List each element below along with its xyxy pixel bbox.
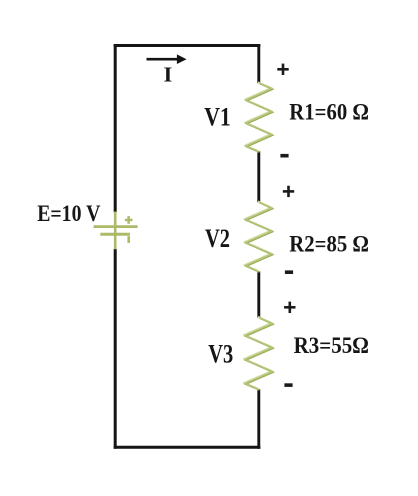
current arrow: [147, 54, 187, 64]
minus sign R2: [285, 270, 293, 274]
wire left lower: [114, 249, 117, 449]
wire left upper: [114, 44, 117, 212]
battery short plate: [100, 233, 130, 236]
wire right segment R1 to R2: [257, 151, 260, 202]
svg-text:R3=55Ω: R3=55Ω: [294, 333, 369, 359]
plus sign R2: [283, 186, 294, 197]
resistor R3: [244, 317, 273, 390]
battery minus mark: [127, 236, 130, 243]
minus sign R1: [280, 154, 288, 158]
svg-text:I: I: [164, 63, 173, 87]
svg-text:V1: V1: [204, 102, 231, 131]
svg-text:V3: V3: [208, 340, 233, 369]
svg-text:E=10 V: E=10 V: [37, 201, 101, 226]
battery E vertical link: [114, 212, 117, 250]
wire top: [114, 44, 261, 47]
resistor R2: [245, 201, 273, 272]
svg-text:V2: V2: [205, 224, 230, 253]
wire right segment above R1: [257, 44, 260, 83]
battery long plate: [94, 225, 138, 228]
wire right segment R2 to R3: [257, 271, 260, 317]
plus sign R1: [277, 64, 288, 75]
svg-text:R2=85 Ω: R2=85 Ω: [289, 232, 369, 258]
wire right segment below R3: [257, 389, 260, 449]
minus sign R3: [284, 383, 292, 387]
wire bottom: [114, 446, 261, 449]
plus sign R3: [284, 302, 295, 313]
resistor R1: [245, 82, 272, 152]
battery plus mark: [125, 216, 133, 224]
svg-text:R1=60 Ω: R1=60 Ω: [289, 100, 369, 126]
